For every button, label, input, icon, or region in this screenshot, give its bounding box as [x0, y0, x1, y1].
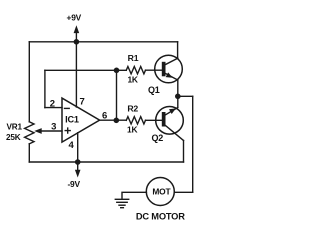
svg-text:-9V: -9V — [67, 179, 80, 189]
resistor R2 — [126, 117, 162, 124]
svg-text:IC1: IC1 — [65, 114, 79, 124]
wire Q2 collector to rail — [183, 141, 185, 163]
svg-text:VR1: VR1 — [7, 123, 23, 132]
pin 7 label — [79, 96, 84, 107]
label Q1 — [148, 85, 160, 95]
label VR1 — [7, 123, 23, 132]
wire Q2 emitter up — [177, 96, 179, 107]
wire feedback loop top — [45, 69, 117, 71]
svg-text:MOT: MOT — [152, 186, 171, 196]
wire pin 4 to rail — [77, 133, 79, 162]
svg-text:R1: R1 — [128, 53, 139, 63]
node emitter junction — [175, 94, 181, 100]
ground — [115, 199, 128, 207]
op-amp U1 IC1 — [62, 98, 100, 142]
label Q2 — [151, 133, 163, 143]
label 25K value — [6, 133, 21, 142]
svg-text:Q2: Q2 — [151, 133, 163, 143]
resistor R1 — [117, 67, 162, 74]
svg-text:4: 4 — [68, 140, 74, 151]
wire left rail lower — [28, 144, 30, 162]
svg-text:DC MOTOR: DC MOTOR — [136, 211, 185, 221]
wire bottom -9V rail — [29, 161, 183, 163]
pin 6 label — [102, 111, 107, 122]
svg-text:1K: 1K — [127, 74, 137, 84]
wire left rail upper — [28, 42, 30, 122]
node output junction — [114, 118, 120, 124]
svg-text:7: 7 — [79, 96, 84, 107]
svg-text:Q1: Q1 — [148, 85, 160, 95]
node +9V junction — [74, 39, 80, 45]
wire +9V to pin 7 — [75, 42, 77, 107]
transistor Q1 — [155, 55, 183, 83]
pin 3 label — [51, 122, 56, 133]
node -9V junction — [75, 159, 81, 165]
pin 2 label — [50, 98, 55, 109]
transistor Q2 — [156, 106, 184, 140]
node R1 junction — [114, 68, 120, 74]
svg-text:3: 3 — [51, 122, 56, 133]
label R1 value 1K — [127, 74, 137, 84]
svg-text:25K: 25K — [6, 133, 21, 142]
power -9V symbol — [67, 162, 80, 189]
wire pin 6 output — [100, 119, 127, 121]
potentiometer VR1 — [25, 122, 62, 144]
wire base link vertical — [116, 70, 118, 120]
label R2 value 1K — [127, 124, 137, 134]
label DC MOTOR — [136, 211, 185, 221]
power +9V symbol — [67, 12, 82, 42]
wire motor left lead — [122, 192, 146, 198]
label R1 — [128, 53, 139, 63]
wire feedback loop vertical — [44, 70, 46, 107]
wire emitter junction to motor branch — [178, 95, 193, 97]
wire motor right vertical — [192, 96, 194, 192]
svg-text:1K: 1K — [127, 124, 137, 134]
pin 4 label — [68, 140, 74, 151]
wire top +9V rail — [29, 41, 177, 43]
wire Q1 collector to rail — [177, 42, 179, 58]
wire motor right lead — [174, 191, 193, 193]
motor M1 — [146, 178, 174, 206]
wire Q1 emitter down — [177, 80, 179, 96]
svg-text:R2: R2 — [127, 103, 138, 113]
wire pin 2 input — [45, 107, 62, 109]
svg-text:+9V: +9V — [67, 12, 82, 22]
label R2 — [127, 103, 138, 113]
